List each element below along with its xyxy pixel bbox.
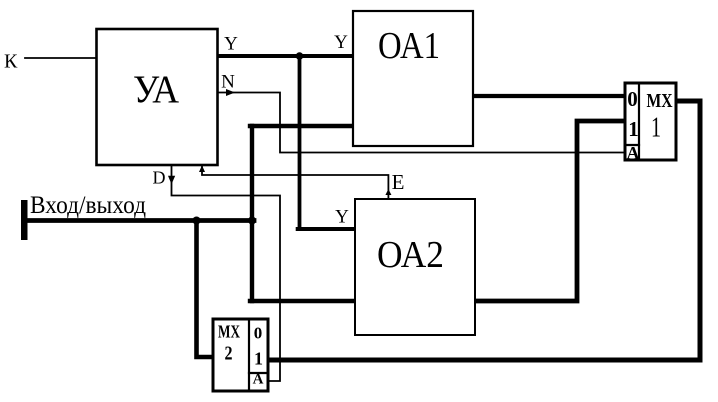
bus Вход/выход horizontal (24, 218, 254, 223)
svg-text:A: A (253, 372, 264, 388)
svg-text:A: A (627, 143, 640, 163)
wire into OA1 lower input (250, 124, 353, 128)
svg-text:2: 2 (225, 343, 233, 365)
wire MX1 output down and along bottom to MX2 input 1 (268, 101, 700, 360)
wire K input to UA (25, 57, 96, 59)
arrowhead D (168, 176, 175, 184)
arrowhead E into UA (199, 165, 205, 172)
divider MX2 A compartment (249, 372, 268, 374)
svg-text:N: N (221, 72, 235, 93)
block MX2 (213, 319, 268, 391)
svg-text:0: 0 (627, 87, 638, 111)
svg-text:К: К (4, 51, 18, 73)
block MX1 (625, 83, 676, 160)
svg-text:1: 1 (254, 349, 263, 369)
arrowhead E above OA2 (385, 189, 391, 195)
block OA2 (355, 199, 475, 335)
svg-text:0: 0 (254, 324, 263, 343)
arrowhead N (226, 89, 235, 96)
wire into OA2 lower input (250, 299, 355, 303)
wire Y into OA2 (298, 227, 355, 231)
svg-text:ОА2: ОА2 (377, 234, 444, 276)
divider MX2 input column (248, 319, 250, 391)
bus terminal bar (21, 200, 28, 240)
wire Y bus: UA output to OA1 input (218, 54, 353, 58)
block UA (97, 29, 218, 165)
wire thick vertical from OA1 input down to OA2 input (250, 126, 254, 301)
wire OA1 output to MX1 input 0 (473, 94, 625, 98)
svg-text:1: 1 (628, 117, 639, 141)
svg-text:Y: Y (335, 207, 349, 228)
node Y junction dot (296, 52, 304, 60)
svg-text:E: E (392, 170, 405, 194)
node bus junction dot right (248, 217, 256, 225)
wire N: UA to MX1 address (218, 93, 625, 153)
svg-text:ОА1: ОА1 (378, 25, 440, 67)
divider MX1 A compartment (625, 144, 639, 146)
wire E: OA2 top to UA bottom (202, 165, 388, 199)
wire OA2 output to MX1 input 1 (475, 121, 625, 301)
svg-text:Y: Y (334, 32, 348, 53)
svg-text:УА: УА (133, 68, 179, 111)
svg-text:MX: MX (647, 90, 673, 112)
svg-text:D: D (153, 168, 166, 188)
divider MX1 input column (638, 83, 640, 160)
svg-text:Вход/выход: Вход/выход (30, 192, 146, 219)
wire Y vertical down to OA2 (298, 56, 302, 229)
block OA1 (353, 11, 473, 146)
node bus junction dot left (193, 217, 201, 225)
svg-text:1: 1 (651, 113, 661, 144)
wire MX2 output up to bus (197, 221, 214, 358)
svg-text:Y: Y (224, 34, 238, 55)
svg-text:MX: MX (218, 322, 240, 342)
wire D: UA bottom to MX2 address (172, 165, 281, 381)
